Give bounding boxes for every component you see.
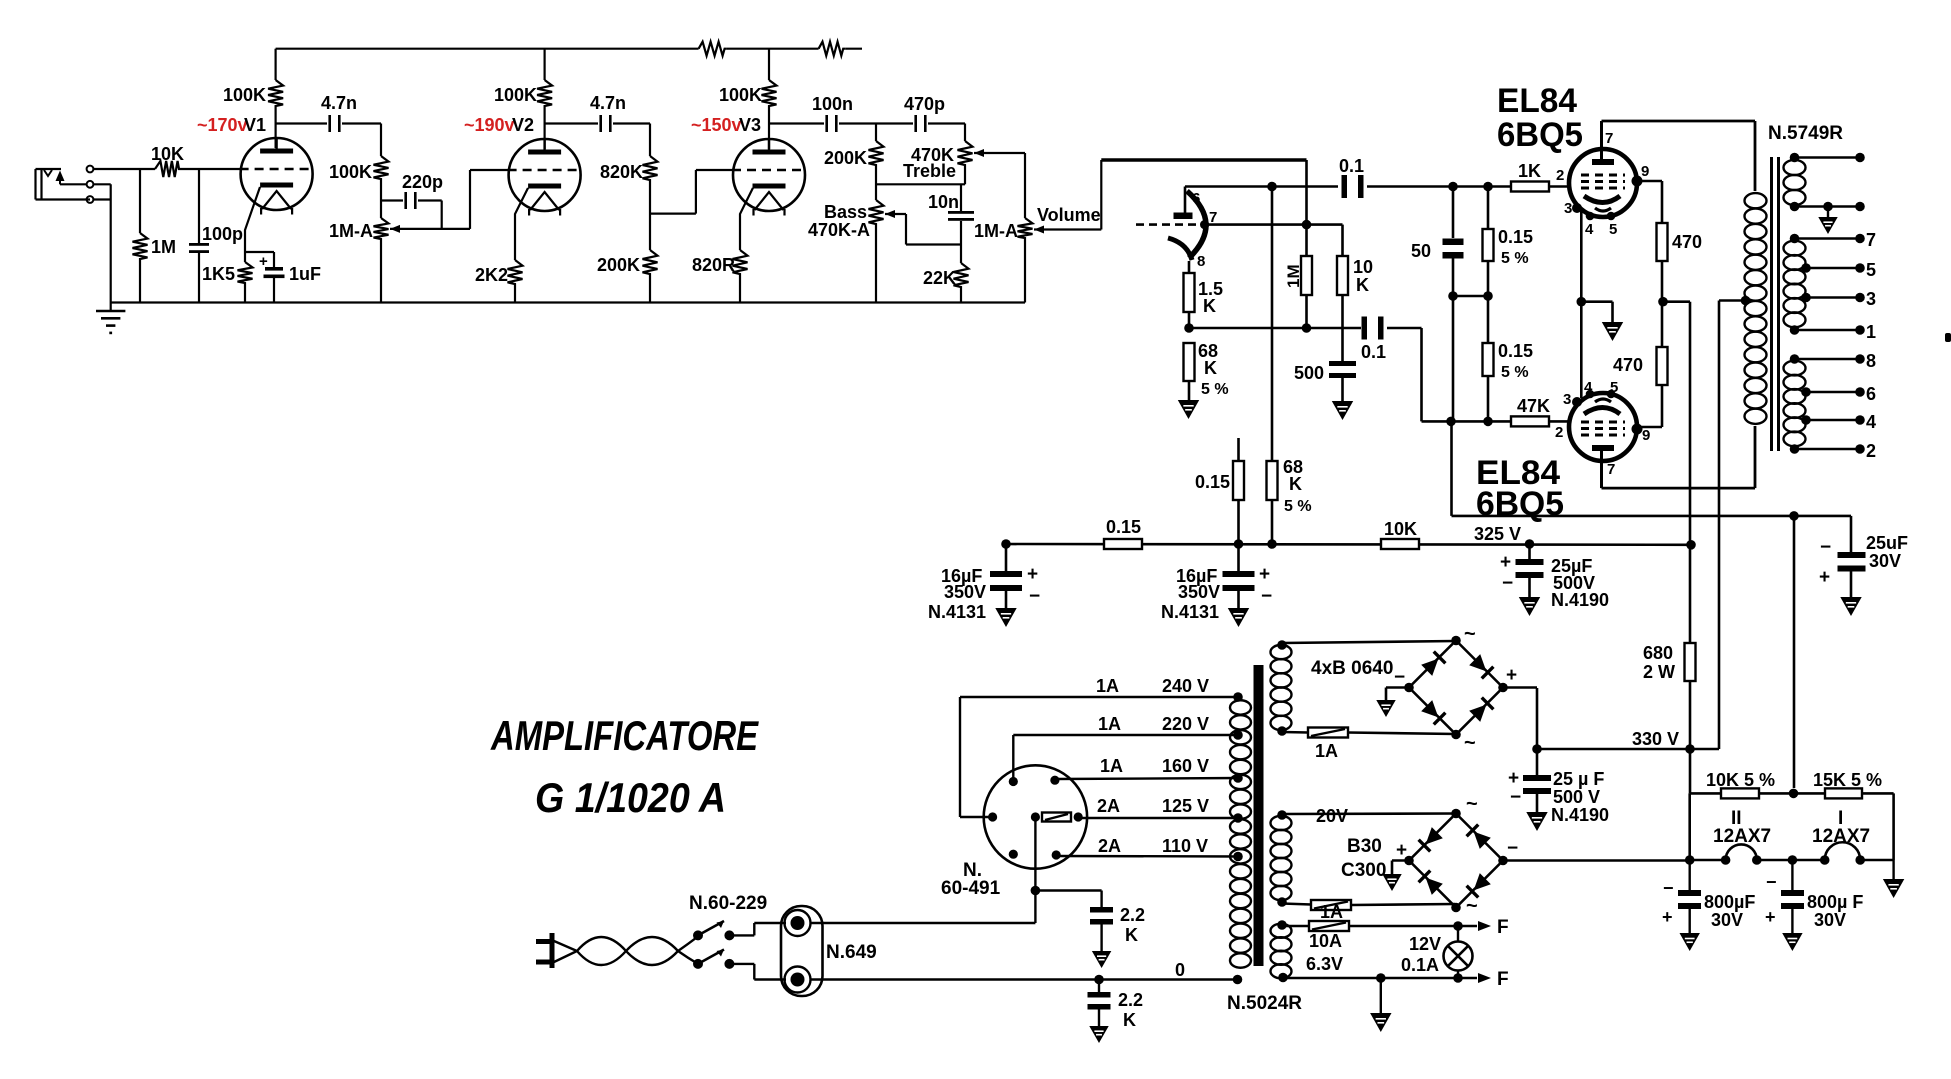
resistor 1M (grid leak) [133, 169, 177, 303]
svg-text:6.3V: 6.3V [1306, 954, 1343, 974]
svg-text:100n: 100n [812, 94, 853, 114]
wire row end to ground [1892, 860, 1894, 879]
svg-text:25 µ F: 25 µ F [1553, 769, 1604, 789]
wire bridge- to ground [1386, 688, 1409, 701]
resistor 0.15 (PI supply) [1195, 438, 1244, 544]
transformer N.5749R label [1768, 123, 1843, 144]
svg-text:0.15: 0.15 [1195, 472, 1230, 492]
resistor 0.15 (decoupling) [1104, 517, 1142, 549]
label B30 C300 [1341, 836, 1386, 881]
svg-text:EL84: EL84 [1497, 82, 1577, 120]
wire EL84-2 plate to OT [1602, 426, 1756, 488]
svg-text:5: 5 [1609, 221, 1617, 238]
svg-text:N.4131: N.4131 [928, 602, 986, 622]
tube V1 triode [240, 138, 314, 215]
wire HT top to bridge [1282, 641, 1456, 643]
svg-text:0.15: 0.15 [1498, 227, 1533, 247]
wire 6.3V top to F [1453, 917, 1508, 938]
ground (25uF at 330V) [1528, 813, 1546, 829]
capacitor 10n [928, 184, 974, 244]
svg-text:470: 470 [1672, 232, 1702, 252]
svg-text:240 V: 240 V [1162, 676, 1209, 696]
svg-text:15K 5 %: 15K 5 % [1813, 770, 1882, 790]
PT 20V secondary [1271, 810, 1292, 907]
wire V3 cathode to 820R [740, 188, 753, 250]
svg-text:200K: 200K [597, 255, 640, 275]
wire 240V to selector [960, 697, 993, 817]
input jack J1 [36, 166, 94, 203]
svg-text:10K 5 %: 10K 5 % [1706, 770, 1775, 790]
ground (500 cap) [1334, 402, 1352, 418]
svg-text:−: − [1502, 573, 1513, 594]
svg-text:~: ~ [1466, 895, 1478, 917]
potentiometer 1M-A (V1 vol) [329, 183, 400, 303]
capacitor 4.7n (V1-V2 coupling) [276, 93, 381, 132]
fuse 1A (HT) [1282, 728, 1456, 762]
wire cathode to ground [1581, 302, 1612, 322]
node screens junction [1658, 297, 1690, 307]
svg-text:4.7n: 4.7n [590, 93, 626, 113]
wire selector common [810, 817, 1040, 923]
capacitor 25uF 500V (at 325V) [1500, 544, 1609, 610]
capacitor 1uF (V1 cathode bypass) [245, 252, 321, 303]
resistor 10K (input) [151, 144, 184, 177]
capacitor 100n (tone in) [769, 94, 876, 132]
svg-text:7: 7 [1866, 230, 1876, 250]
svg-text:30V: 30V [1869, 551, 1901, 571]
svg-text:+: + [1765, 907, 1776, 927]
ground (16uF second) [1230, 609, 1248, 625]
wire jack sleeve [94, 198, 111, 200]
svg-text:K: K [1356, 275, 1369, 295]
connector N.649 [781, 906, 877, 996]
svg-text:1A: 1A [1096, 676, 1119, 696]
resistor 470 (screen 1) [1657, 223, 1703, 302]
edge mark (scan artifact) [1945, 333, 1951, 342]
svg-text:220p: 220p [402, 172, 443, 192]
svg-text:7: 7 [1607, 461, 1615, 478]
label EL84 lower [1476, 454, 1564, 523]
resistor 10K 5% (heater divider) [1690, 749, 1775, 798]
wire PI cathode row [1189, 323, 1361, 333]
svg-text:F: F [1497, 917, 1509, 938]
svg-text:10K: 10K [151, 144, 184, 164]
svg-text:12V: 12V [1409, 934, 1441, 954]
svg-text:−: − [1394, 667, 1405, 688]
resistor 0.15 5% (lower) [1483, 261, 1534, 421]
resistor 820R (V3 cathode) [692, 250, 748, 303]
svg-text:47K: 47K [1517, 396, 1550, 416]
svg-text:1K5: 1K5 [202, 264, 235, 284]
svg-text:10: 10 [1353, 257, 1373, 277]
svg-text:25uF: 25uF [1866, 533, 1908, 553]
wire 0.1 lower to 47K row [1387, 328, 1511, 426]
resistor 10K (decoupling) [1381, 519, 1419, 549]
ground (bridge 4xB) [1378, 701, 1394, 715]
svg-text:N.4190: N.4190 [1551, 590, 1609, 610]
svg-text:K: K [1204, 358, 1217, 378]
svg-text:5 %: 5 % [1284, 498, 1312, 515]
svg-text:0: 0 [1175, 960, 1185, 980]
heater 12AX7 I [1812, 808, 1894, 865]
PT primary coil [1230, 700, 1251, 968]
svg-text:0.15: 0.15 [1498, 341, 1533, 361]
label EL84 upper [1497, 82, 1583, 154]
svg-text:470p: 470p [904, 94, 945, 114]
svg-text:800µF: 800µF [1704, 892, 1755, 912]
svg-text:500 V: 500 V [1553, 787, 1600, 807]
svg-text:N.5024R: N.5024R [1227, 993, 1302, 1014]
svg-text:9: 9 [1642, 427, 1650, 444]
wire rail mid [727, 48, 819, 50]
svg-text:30V: 30V [1814, 910, 1846, 930]
wire volume wiper to PI (thick) [1034, 160, 1307, 230]
ground (16uF first) [997, 609, 1015, 625]
wire cathodes [1577, 211, 1587, 398]
svg-text:125 V: 125 V [1162, 796, 1209, 816]
svg-text:G 1/1020 A: G 1/1020 A [535, 774, 726, 821]
tap 0 wire [810, 960, 1242, 984]
OT center tap to B+ [1719, 301, 1746, 750]
svg-text:K: K [1289, 474, 1302, 494]
resistor 10K (PI comp) [1337, 225, 1373, 361]
tube EL84 V4 (upper) [1564, 130, 1649, 238]
ground (800uF left) [1681, 934, 1698, 949]
svg-text:N.649: N.649 [826, 942, 877, 963]
PT label [1227, 993, 1302, 1014]
potentiometer 470K Treble [903, 124, 984, 185]
resistor 100K (V2 grid) [329, 124, 389, 184]
wire 6.3V bottom to F [1283, 969, 1509, 990]
svg-text:~170v: ~170v [197, 115, 248, 135]
svg-text:+: + [1500, 552, 1511, 573]
wire 1K to pin2 [1549, 167, 1569, 187]
B+ rail top [276, 48, 699, 50]
tube V3 triode [732, 139, 806, 216]
resistor 200K (tone) [824, 124, 884, 201]
fuse 1A (20V) [1282, 900, 1455, 922]
svg-text:330 V: 330 V [1632, 729, 1679, 749]
svg-text:4.7n: 4.7n [321, 93, 357, 113]
svg-text:2.2: 2.2 [1120, 905, 1145, 925]
wire V2 cathode to 2K2 [515, 188, 528, 260]
wire bass wiper [885, 214, 961, 245]
node PI cathode junction [1184, 323, 1194, 333]
resistor 47K (EL84-2 grid) [1511, 396, 1550, 426]
resistor 22K [923, 245, 969, 303]
ground (25uF 30V) [1842, 598, 1860, 614]
svg-text:1A: 1A [1315, 741, 1338, 761]
wire 820K to 200K [649, 184, 651, 250]
svg-text:+: + [1259, 564, 1270, 585]
potentiometer Bass 470K-A [808, 200, 895, 303]
ground (PI tail) [1180, 401, 1198, 417]
svg-text:−: − [1029, 586, 1040, 607]
label ~170v V1 [197, 115, 266, 135]
label 4xB 0640 [1311, 658, 1393, 679]
svg-text:100K: 100K [223, 85, 266, 105]
wire 220V to selector [1012, 735, 1014, 782]
title AMPLIFICATORE [490, 712, 759, 759]
svg-text:5 %: 5 % [1501, 364, 1529, 381]
PT HT secondary [1271, 640, 1292, 736]
svg-text:~150v: ~150v [691, 115, 742, 135]
svg-text:~: ~ [1466, 793, 1478, 815]
svg-text:10K: 10K [1384, 519, 1417, 539]
wire screen jumper [1448, 291, 1493, 301]
wire jack ring to ground rail [94, 184, 111, 302]
svg-text:0.15: 0.15 [1106, 517, 1141, 537]
svg-text:N.5749R: N.5749R [1768, 123, 1843, 144]
heater 12AX7 II [1685, 808, 1771, 865]
wire 20V top to bridge [1282, 806, 1456, 826]
resistor 470 (screen 2) [1613, 302, 1668, 385]
capacitor 100p [189, 169, 243, 303]
svg-text:2 W: 2 W [1643, 662, 1675, 682]
resistor 100K (V2 plate load) [494, 49, 552, 149]
svg-text:1A: 1A [1100, 756, 1123, 776]
svg-text:800µ F: 800µ F [1807, 892, 1863, 912]
wire EL84-1 screen [1637, 181, 1662, 223]
voltage selector N.60-491 [941, 765, 1087, 899]
wire bridge+ to 330V [1503, 686, 1537, 689]
resistor 68K 5% (PI plate load) [1267, 187, 1312, 545]
wire B30+ to ground [1392, 861, 1410, 875]
wire speaker common line [1452, 421, 1852, 520]
OT primary coil [1741, 193, 1767, 424]
svg-text:10n: 10n [928, 192, 959, 212]
svg-text:2A: 2A [1097, 796, 1120, 816]
resistor 1M (PI grid leak) [1284, 225, 1312, 328]
wire EL84-2 screen [1637, 385, 1662, 427]
svg-text:C300: C300 [1341, 860, 1386, 881]
resistor 1K (EL84-1 grid stopper) [1511, 161, 1549, 192]
rectifier bridge 4xB 0640 [1394, 623, 1517, 754]
wire screens to B+ [1689, 302, 1692, 545]
preamp ground rail [111, 301, 1025, 303]
wire 0.1 to 1K [1367, 182, 1511, 192]
svg-text:2A: 2A [1098, 836, 1121, 856]
fuse 10A (6.3V) [1283, 921, 1458, 974]
svg-text:+: + [1027, 564, 1038, 585]
tube EL84 V5 (lower) [1563, 379, 1650, 478]
svg-text:2: 2 [1866, 441, 1876, 461]
tap 160V [1055, 756, 1243, 783]
resistor 1K5 (V1 cathode) [202, 262, 253, 303]
PT core [1254, 665, 1264, 966]
ground (heater row end) [1885, 880, 1903, 896]
capacitor 800uF 30V (right) [1765, 860, 1863, 933]
svg-text:500: 500 [1294, 363, 1324, 383]
svg-text:2K2: 2K2 [475, 265, 508, 285]
wire wiper V1 to V2 grid [390, 170, 509, 229]
resistor 15K 5% (heater divider) [1759, 770, 1894, 798]
wire 325V rail [1001, 539, 1696, 549]
svg-text:2: 2 [1555, 424, 1563, 441]
capacitor 470p (treble cap) [876, 94, 965, 132]
svg-text:F: F [1497, 969, 1509, 990]
svg-text:7: 7 [1605, 130, 1613, 147]
svg-text:680: 680 [1643, 643, 1673, 663]
svg-text:B30: B30 [1347, 836, 1382, 857]
svg-text:K: K [1203, 296, 1216, 316]
svg-text:350V: 350V [1178, 582, 1220, 602]
wire V1 cathode to 1K5 [245, 187, 260, 262]
svg-text:K: K [1123, 1010, 1136, 1030]
svg-text:N.4131: N.4131 [1161, 602, 1219, 622]
capacitor 2.2K (line filter 2) [1088, 975, 1144, 1030]
svg-text:V3: V3 [739, 115, 761, 135]
ground (800uF right) [1784, 934, 1801, 949]
svg-text:0.1: 0.1 [1361, 342, 1386, 362]
resistor 100K (V3 plate load) [719, 49, 777, 149]
ground (heater ct) [1372, 1014, 1390, 1030]
svg-text:3: 3 [1563, 391, 1571, 408]
tap 125V [1078, 796, 1243, 823]
wire 47K to pin2 [1549, 421, 1569, 441]
resistor 820K (divider) [600, 124, 658, 185]
svg-text:5 %: 5 % [1501, 250, 1529, 267]
svg-text:−: − [1261, 586, 1272, 607]
ground (EL84 cathodes) [1604, 323, 1622, 339]
svg-text:8: 8 [1866, 351, 1876, 371]
mains plug [536, 933, 552, 968]
svg-text:N.60-229: N.60-229 [689, 893, 767, 914]
svg-text:350V: 350V [944, 582, 986, 602]
switch N.60-229 [689, 893, 767, 969]
svg-text:60-491: 60-491 [941, 878, 1001, 899]
wire EL84-1 plate to OT [1602, 121, 1756, 191]
svg-text:1K: 1K [1518, 161, 1541, 181]
svg-text:4: 4 [1866, 412, 1876, 432]
svg-text:5: 5 [1866, 260, 1876, 280]
wire jack tip to 10K [94, 168, 156, 170]
svg-text:820R: 820R [692, 255, 735, 275]
svg-text:1A: 1A [1320, 902, 1343, 922]
svg-text:3: 3 [1866, 289, 1876, 309]
svg-text:−: − [1663, 878, 1674, 898]
svg-text:4: 4 [1584, 379, 1593, 396]
ground (OT secondary) [1820, 218, 1836, 232]
svg-text:−: − [1510, 787, 1521, 808]
resistor 68K 5% (PI tail) [1184, 341, 1229, 400]
svg-text:~190v: ~190v [464, 115, 515, 135]
wire heater center to ground [1380, 978, 1382, 1013]
OT secondary group2 [1784, 230, 1877, 342]
svg-text:Treble: Treble [903, 161, 956, 181]
svg-text:2: 2 [1556, 167, 1564, 184]
svg-text:12AX7: 12AX7 [1713, 826, 1771, 847]
svg-text:Bass: Bass [824, 202, 867, 222]
wire 330V rail [1532, 688, 1719, 754]
svg-text:−: − [1766, 872, 1777, 892]
ground (2.2K second) [1091, 1027, 1107, 1041]
capacitor 800uF 30V (left) [1662, 860, 1755, 933]
svg-text:+: + [1662, 907, 1673, 927]
title G 1/1020 A [535, 774, 726, 821]
svg-text:0.1A: 0.1A [1401, 955, 1439, 975]
resistor 2K2 (V2 cathode) [475, 260, 523, 303]
ground (25uF at 325V) [1521, 598, 1539, 614]
capacitor 500 (comp) [1294, 361, 1356, 401]
svg-text:4: 4 [1585, 221, 1594, 238]
svg-text:3: 3 [1564, 200, 1572, 217]
potentiometer 1M-A Volume [974, 205, 1101, 303]
svg-text:N.4190: N.4190 [1551, 805, 1609, 825]
node PI plate row [1185, 182, 1338, 192]
svg-text:V1: V1 [244, 115, 266, 135]
svg-text:5: 5 [1610, 379, 1618, 396]
svg-text:1A: 1A [1098, 714, 1121, 734]
label 325V [1474, 524, 1521, 544]
svg-text:160 V: 160 V [1162, 756, 1209, 776]
wire switch to connector [729, 923, 786, 980]
wire divider to V3 grid [650, 170, 733, 214]
label ~150v V3 [691, 115, 761, 135]
wire to heater bias divider [1793, 516, 1796, 788]
svg-text:4xB 0640: 4xB 0640 [1311, 658, 1393, 679]
svg-text:10A: 10A [1309, 931, 1342, 951]
svg-text:V2: V2 [512, 115, 534, 135]
svg-text:820K: 820K [600, 162, 643, 182]
capacitor 50 (screen filter) [1411, 187, 1464, 422]
svg-text:1uF: 1uF [289, 264, 321, 284]
svg-text:470K-A: 470K-A [808, 220, 870, 240]
svg-text:+: + [1396, 840, 1407, 861]
capacitor 25uF 500V (at 330V) [1508, 749, 1609, 825]
tap 110V [1056, 836, 1243, 861]
wire treble wiper to volume top [974, 153, 1025, 218]
svg-text:1: 1 [1866, 322, 1876, 342]
resistor 680 2W [1643, 545, 1696, 749]
svg-text:+: + [1506, 665, 1517, 686]
capacitor 0.1 (to EL84 lower) [1361, 317, 1386, 363]
svg-text:1M-A: 1M-A [974, 221, 1018, 241]
capacitor 16uF 350V (first) [928, 544, 1040, 622]
svg-text:6BQ5: 6BQ5 [1476, 485, 1564, 523]
svg-text:K: K [1125, 925, 1138, 945]
svg-text:100K: 100K [494, 85, 537, 105]
resistor 0.15 5% (upper) [1483, 187, 1534, 268]
svg-text:0.1: 0.1 [1339, 156, 1364, 176]
svg-text:+: + [259, 253, 268, 270]
tube V2 triode [508, 139, 582, 216]
svg-text:~: ~ [1464, 623, 1476, 645]
svg-text:5 %: 5 % [1201, 381, 1229, 398]
resistor 200K (divider) [597, 250, 658, 303]
svg-text:22K: 22K [923, 268, 956, 288]
svg-text:100K: 100K [329, 162, 372, 182]
svg-text:+: + [1819, 567, 1830, 588]
capacitor 25uF 30V [1819, 516, 1908, 597]
wire B30- to heater rail [1502, 859, 1690, 862]
svg-text:6BQ5: 6BQ5 [1497, 116, 1583, 154]
svg-text:30V: 30V [1711, 910, 1743, 930]
svg-text:AMPLIFICATORE: AMPLIFICATORE [490, 712, 759, 759]
wire 10K to V1 grid [183, 168, 241, 170]
svg-text:+: + [1508, 768, 1519, 789]
wire between heaters [1757, 855, 1825, 865]
ground (preamp) [96, 303, 125, 333]
svg-text:100K: 100K [719, 85, 762, 105]
wire tone bus [876, 183, 965, 185]
svg-text:2.2: 2.2 [1118, 990, 1143, 1010]
svg-text:20V: 20V [1316, 806, 1348, 826]
svg-text:−: − [1507, 838, 1518, 859]
tap 240V [960, 676, 1243, 702]
ground (bridge B30) [1384, 875, 1400, 889]
pilot lamp 12V 0.1A [1401, 926, 1473, 978]
